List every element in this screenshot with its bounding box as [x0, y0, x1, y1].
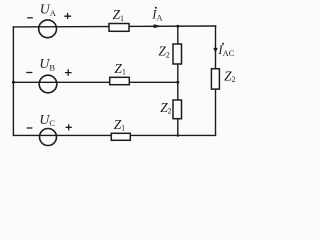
impedance Z2 box (upper, middle branch) [173, 44, 182, 64]
label plus (U_A) [64, 13, 71, 19]
junction node B/left bus [12, 81, 15, 84]
label plus (U_B) [65, 69, 72, 76]
wire left neutral bus [12, 27, 14, 135]
wire phase A line [13, 25, 215, 28]
source U_B circle [39, 75, 57, 93]
label minus (U_A) [27, 17, 33, 19]
junction node C/mid branch [177, 134, 180, 137]
arrow I_A (on phase A line) [154, 24, 163, 28]
arrow I_AC (down on right branch) [213, 48, 218, 53]
junction node B/mid branch [176, 81, 179, 84]
dot of I_AC [222, 43, 224, 45]
wire middle branch x=178 [177, 26, 179, 135]
source U_A circle [39, 20, 57, 38]
label plus (U_C) [66, 124, 72, 130]
source U_C circle [40, 129, 57, 146]
impedance Z1 box (phase B) [110, 77, 130, 84]
impedance Z1 box (phase C) [111, 133, 130, 140]
wire phase B line [13, 81, 177, 83]
impedance Z1 box (phase A) [109, 24, 129, 32]
impedance Z2 box (right branch) [211, 69, 219, 89]
wire phase C line [13, 134, 215, 136]
impedance Z2 box (lower, middle branch) [173, 100, 182, 119]
wire right branch x=215.5 [215, 26, 217, 135]
label minus (U_B) [26, 72, 32, 74]
label minus (U_C) [27, 127, 33, 129]
dot of I_A [155, 7, 157, 9]
junction node A/mid branch [176, 25, 179, 28]
